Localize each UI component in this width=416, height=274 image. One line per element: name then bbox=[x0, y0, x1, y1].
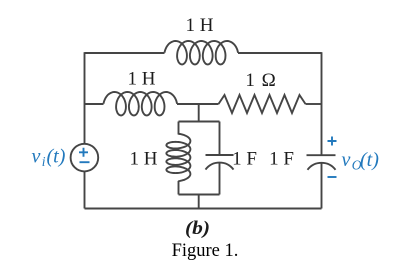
wire middle row to resistor bbox=[177, 103, 219, 105]
svg-text:1 F: 1 F bbox=[269, 149, 294, 170]
plus sign (source) bbox=[79, 148, 88, 157]
minus sign (source) bbox=[80, 161, 90, 163]
wire LC box right lower bbox=[219, 163, 221, 195]
svg-text:v: v bbox=[32, 146, 41, 168]
plus sign (output polarity) bbox=[328, 137, 337, 146]
inductor L2 1H (middle row) bbox=[104, 92, 178, 115]
wire right rail lower bbox=[321, 163, 323, 209]
svg-text:(b): (b) bbox=[185, 218, 210, 239]
wire bottom rail bbox=[85, 208, 322, 210]
svg-text:(t): (t) bbox=[47, 146, 66, 168]
svg-text:(t): (t) bbox=[360, 149, 379, 171]
wire LC box right upper bbox=[219, 122, 221, 155]
wire left rail upper bbox=[84, 52, 86, 144]
capacitor C2 1F (output) top plate bbox=[307, 154, 336, 156]
resistor R1 1ohm bbox=[219, 95, 306, 113]
voltage source vi(t) bbox=[71, 144, 99, 172]
wire box bottom stub to rail bbox=[198, 195, 200, 209]
wire LC box bottom bbox=[179, 194, 220, 196]
wire middle row left bbox=[85, 103, 104, 105]
svg-text:i: i bbox=[42, 154, 46, 169]
wire top-left horizontal bbox=[85, 52, 165, 54]
wire right rail upper bbox=[321, 52, 323, 155]
capacitor C1 1F (in box) curved plate bbox=[206, 163, 234, 170]
wire LC box left upper stub bbox=[178, 122, 180, 135]
svg-text:Figure 1.: Figure 1. bbox=[172, 241, 239, 261]
svg-text:1 H: 1 H bbox=[128, 69, 156, 90]
wire resistor to right rail bbox=[306, 103, 322, 105]
label vi(t) bbox=[32, 146, 66, 170]
wire left rail lower bbox=[84, 171, 86, 208]
svg-text:1 H: 1 H bbox=[130, 149, 158, 170]
label vo(t) bbox=[342, 149, 380, 173]
wire LC box left lower stub bbox=[178, 181, 180, 195]
svg-text:1 H: 1 H bbox=[186, 15, 214, 36]
minus sign (output polarity) bbox=[328, 176, 337, 178]
svg-text:1 Ω: 1 Ω bbox=[245, 70, 276, 91]
capacitor C2 1F (output) curved plate bbox=[308, 163, 336, 170]
inductor L3 1H (vertical) bbox=[166, 134, 190, 181]
svg-text:v: v bbox=[342, 149, 351, 171]
svg-text:1 F: 1 F bbox=[232, 149, 257, 170]
wire junction stub down bbox=[198, 104, 200, 122]
capacitor C1 1F (in box) top plate bbox=[206, 154, 234, 156]
inductor L1 1H (top) bbox=[165, 41, 239, 64]
wire top-right horizontal bbox=[238, 52, 322, 54]
wire LC box top bbox=[179, 121, 220, 123]
